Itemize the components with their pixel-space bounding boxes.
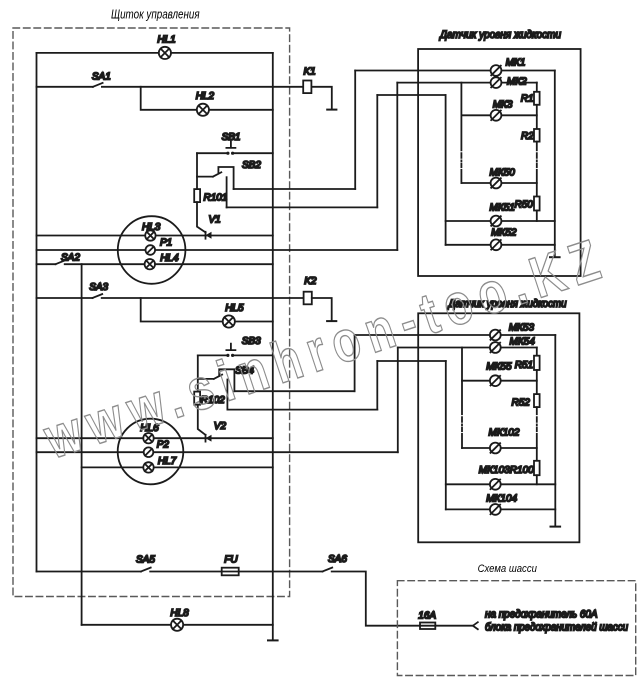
wire MK2 (397, 82, 537, 84)
svg-text:МК53: МК53 (509, 323, 535, 334)
fuse FU (222, 568, 239, 576)
wire MK51 (446, 220, 555, 222)
wire SB vertical left 2 (197, 355, 199, 391)
svg-text:блока предохранителей шасси: блока предохранителей шасси (485, 621, 628, 633)
contact MK53 (490, 330, 501, 341)
arrow chevron (473, 622, 478, 629)
wire box1 inner left dashdot (460, 153, 462, 167)
lamp HL8 (171, 619, 183, 631)
resistor R50 (534, 197, 540, 211)
svg-text:HL2: HL2 (196, 91, 215, 102)
chassis dashed border (397, 581, 635, 676)
contact MK103 (490, 479, 501, 490)
svg-text:МК52: МК52 (491, 228, 517, 239)
lamp HL5 (223, 315, 235, 327)
contact MK52 (491, 239, 502, 250)
svg-text:P2: P2 (157, 439, 170, 450)
resistor R102 (194, 392, 200, 405)
wire K2 to chassis (312, 298, 332, 320)
wire box1 inner left vertical (460, 83, 462, 183)
wire chain R100 down (536, 475, 538, 484)
svg-text:R100: R100 (510, 465, 534, 476)
wire chain dashdot (536, 153, 538, 167)
lamp HL3 (145, 230, 155, 240)
wire SB1 (197, 152, 273, 154)
wire box2 entry3 (377, 360, 446, 362)
wire SB3 (198, 354, 273, 356)
wire chain R52 down (536, 407, 538, 414)
wire chain R50 down (536, 211, 538, 222)
wire box2 left drop (445, 361, 447, 509)
svg-text:R2: R2 (521, 131, 534, 142)
svg-text:SA6: SA6 (328, 554, 347, 565)
gauge cluster circle 1 (118, 216, 186, 284)
wire SA6 to chassis fuse (332, 572, 473, 626)
switch SB2 (197, 167, 234, 207)
wire P2 (37, 451, 398, 453)
wire P1 riser (396, 83, 398, 250)
contact MK51 (491, 216, 502, 227)
gauge cluster circle 2 (118, 419, 184, 485)
control panel dashed border (13, 28, 290, 597)
wire SA5 FU (37, 571, 323, 573)
svg-text:V2: V2 (214, 421, 227, 432)
wire chain R51-R52 (536, 370, 538, 394)
wire MK104 (446, 508, 556, 510)
switch SA2 blade (56, 260, 66, 264)
svg-text:V1: V1 (209, 215, 221, 226)
wire box2 inner left dashdot (461, 417, 463, 431)
sensor box 1 border (418, 49, 580, 276)
wire MK3 (461, 114, 536, 116)
svg-text:Схема шасси: Схема шасси (478, 563, 537, 575)
contact MK50 (491, 178, 502, 189)
lamp HL2 (197, 104, 209, 116)
wire SB4out1 riser (354, 335, 356, 391)
svg-text:МК102: МК102 (489, 428, 520, 439)
wire box2 right vertical (554, 335, 556, 526)
contact MK2 (491, 77, 502, 88)
svg-text:МК3: МК3 (493, 99, 513, 110)
svg-text:16А: 16А (418, 611, 436, 622)
contact MK102 (490, 443, 501, 454)
wire MK50 (461, 182, 536, 184)
wire chain to R100 (536, 434, 538, 461)
svg-text:K2: K2 (304, 276, 317, 287)
wire box1 right vertical (554, 71, 556, 257)
button SB1 (226, 142, 235, 155)
contact MK104 (490, 504, 501, 515)
wire SB2 out2 (227, 206, 378, 208)
ground K2 (327, 320, 336, 322)
relay coil K2 (304, 292, 312, 305)
wire SA2 HL4 (37, 263, 273, 265)
wire box1 left drop (445, 95, 447, 245)
switch SA6 blade (323, 568, 333, 572)
wire HL2 branch (141, 87, 273, 110)
button SB3 (226, 344, 235, 357)
svg-text:P1: P1 (160, 237, 172, 248)
svg-text:HL1: HL1 (157, 35, 175, 46)
wire MK102 (462, 447, 537, 449)
contact MK3 (491, 110, 502, 121)
svg-text:R51: R51 (515, 360, 533, 371)
svg-text:SA2: SA2 (61, 253, 80, 264)
resistor R1 (534, 92, 540, 105)
svg-text:МК2: МК2 (507, 77, 527, 88)
wire SB4out2 riser (376, 361, 378, 410)
fuse 16A (420, 623, 435, 630)
wire chain to R50 (536, 170, 538, 197)
wire MK103 (446, 483, 556, 485)
svg-text:МК55: МК55 (486, 362, 512, 373)
svg-text:SB2: SB2 (242, 160, 261, 171)
wire HL3 (37, 235, 273, 237)
svg-text:Датчик уровня жидкости: Датчик уровня жидкости (438, 29, 561, 41)
switch SB4 (198, 369, 235, 409)
svg-text:www.sinhron-too.KZ: www.sinhron-too.KZ (36, 226, 615, 472)
wire P2 riser (397, 348, 399, 453)
resistor R51 (534, 356, 540, 370)
wire MK54 (398, 347, 537, 349)
wire HL7 (82, 466, 273, 468)
svg-text:МК1: МК1 (506, 57, 526, 68)
diode V2 (206, 435, 212, 442)
wire SB2out2 riser (376, 95, 378, 207)
lamp HL6 (143, 433, 153, 443)
svg-text:R52: R52 (512, 398, 531, 409)
lamp HL7 (143, 462, 153, 472)
wire SB vertical left (196, 153, 198, 189)
wire chain R1-R2 (536, 105, 538, 129)
wire SB4 out2 (227, 409, 377, 411)
wire R102 to V2 (198, 405, 206, 435)
svg-text:FU: FU (224, 555, 238, 566)
wire box1 entry3 (377, 94, 445, 96)
ground at bus bottom (268, 639, 278, 641)
svg-text:HL5: HL5 (225, 303, 244, 314)
contact MK54 (490, 342, 501, 353)
svg-text:МК103: МК103 (479, 465, 510, 476)
svg-text:МК54: МК54 (510, 336, 536, 347)
contact MK55 (490, 375, 501, 386)
svg-text:K1: K1 (304, 67, 316, 78)
relay coil K1 (303, 81, 311, 94)
switch SA5 blade (141, 568, 151, 572)
svg-text:SA1: SA1 (92, 72, 111, 83)
wire SB2 out1 (234, 188, 356, 190)
svg-text:R50: R50 (515, 199, 534, 210)
wire HL6 (37, 437, 273, 439)
svg-text:HL8: HL8 (170, 608, 189, 619)
wire P1 (37, 249, 398, 251)
svg-text:МК104: МК104 (486, 494, 517, 505)
svg-text:SB1: SB1 (222, 132, 241, 143)
wire R101 to V1 (197, 202, 206, 232)
wire K1 to chassis (311, 87, 331, 109)
svg-text:Щиток управления: Щиток управления (111, 8, 200, 22)
wire box2 chain top (536, 348, 538, 356)
contact MK1 (491, 65, 502, 76)
svg-text:МК50: МК50 (490, 167, 516, 178)
wire junction vertical SA2-SA3-HL7-HL8 (81, 264, 83, 625)
diode V1 (206, 232, 212, 239)
wire box2 inner left vertical (461, 348, 463, 449)
lamp HL1 (159, 47, 171, 59)
sensor box 2 border (418, 313, 579, 542)
ground K1 (327, 109, 336, 111)
svg-text:R101: R101 (204, 193, 228, 204)
switch SA1 blade (93, 83, 103, 87)
resistor R100 (534, 461, 540, 475)
svg-text:HL7: HL7 (158, 456, 177, 467)
lamp HL4 (145, 259, 155, 269)
ground box2 (551, 526, 561, 528)
wire MK55 (462, 380, 537, 382)
wire MK53 (355, 334, 556, 336)
svg-text:HL3: HL3 (142, 222, 161, 233)
svg-text:МК51: МК51 (490, 202, 515, 213)
wire MK52 (446, 244, 555, 246)
resistor R52 (534, 394, 540, 407)
wire SB2out1 riser (354, 71, 356, 190)
switch SA3 blade (93, 294, 103, 298)
wire SB4 out1 (234, 390, 354, 392)
right bus wire (272, 53, 274, 639)
meter P1 (146, 245, 156, 255)
left bus wire (36, 53, 38, 572)
svg-text:R1: R1 (521, 94, 534, 105)
resistor R2 (534, 129, 540, 142)
svg-text:HL4: HL4 (160, 253, 179, 264)
wire SA3 (37, 297, 304, 299)
svg-text:на предохранитель 60А: на предохранитель 60А (485, 609, 598, 621)
wire HL5 branch (141, 298, 273, 322)
wire HL1 (37, 52, 273, 54)
wire box1 chain top (536, 83, 538, 92)
wire SA1 (37, 86, 304, 88)
meter P2 (144, 447, 154, 457)
svg-text:SA3: SA3 (89, 282, 108, 293)
ground box1 (550, 256, 560, 258)
wire box2 chain dashdot (536, 417, 538, 431)
wire MK1 (355, 70, 555, 72)
svg-text:SA5: SA5 (136, 555, 155, 566)
resistor R101 (194, 189, 200, 202)
wire HL8 (82, 624, 273, 626)
wire chain R2 down (536, 142, 538, 151)
